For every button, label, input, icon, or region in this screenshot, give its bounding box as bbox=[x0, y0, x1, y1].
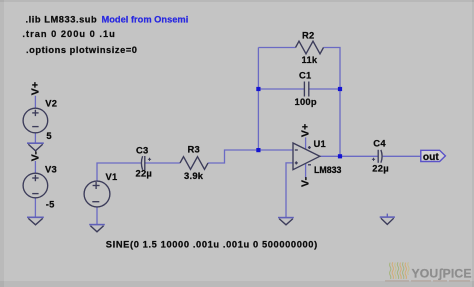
wire V1 top to C3 bbox=[97, 163, 141, 181]
voltage source V3 bbox=[23, 173, 48, 198]
svg-text:V+: V+ bbox=[30, 82, 42, 96]
wire V3 top stub bbox=[34, 161, 36, 173]
wire top to R2 bbox=[258, 47, 295, 49]
resistor R2 bbox=[296, 41, 324, 54]
node junction at output bbox=[338, 154, 342, 158]
wire R3 jog up to opamp inverting input bbox=[208, 150, 293, 163]
wire V2 to ground bbox=[34, 133, 36, 144]
op-amp U1 bbox=[293, 143, 320, 170]
svg-text:V+: V+ bbox=[299, 124, 311, 138]
svg-text:V1: V1 bbox=[106, 171, 118, 182]
node junction at inverting input bbox=[256, 148, 260, 152]
watermark logo strands bbox=[390, 262, 409, 279]
floating ground right bbox=[380, 214, 395, 225]
capacitor C3 (polarized) bbox=[141, 156, 151, 170]
resistor R3 bbox=[180, 157, 208, 170]
svg-text:SINE(0 1.5 10000 .001u .001u 0: SINE(0 1.5 10000 .001u .001u 0 500000000… bbox=[106, 239, 318, 249]
svg-text:-5: -5 bbox=[46, 198, 55, 209]
wire V3 to ground bbox=[34, 198, 36, 218]
watermark tagline bbox=[385, 280, 470, 281]
voltage source V1 bbox=[84, 181, 110, 207]
node junction C1 left bbox=[256, 87, 260, 91]
wire C1 left bbox=[258, 88, 304, 90]
ground below V2 bbox=[27, 143, 44, 151]
svg-text:R3: R3 bbox=[188, 144, 200, 155]
svg-text:3.9k: 3.9k bbox=[184, 170, 204, 181]
svg-text:100p: 100p bbox=[295, 96, 317, 107]
svg-text:C4: C4 bbox=[373, 137, 386, 148]
svg-text:V-: V- bbox=[30, 151, 42, 162]
svg-text:R2: R2 bbox=[302, 30, 314, 41]
svg-text:.options plotwinsize=0: .options plotwinsize=0 bbox=[26, 45, 138, 55]
wire opamp noninverting input to ground bbox=[286, 163, 293, 218]
svg-text:out: out bbox=[423, 152, 439, 163]
voltage source V2 bbox=[23, 108, 48, 133]
svg-text:C1: C1 bbox=[299, 69, 311, 80]
svg-text:C3: C3 bbox=[136, 144, 148, 155]
svg-text:LM833: LM833 bbox=[314, 165, 341, 175]
out flag bbox=[421, 150, 446, 161]
wire opamp V+ pin bbox=[305, 137, 307, 149]
svg-text:5: 5 bbox=[46, 130, 51, 141]
svg-text:V-: V- bbox=[300, 176, 312, 187]
capacitor C4 (polarized) bbox=[372, 150, 382, 163]
svg-text:11k: 11k bbox=[302, 54, 318, 65]
svg-text:.tran 0 200u 0 .1u: .tran 0 200u 0 .1u bbox=[22, 29, 115, 39]
wire opamp output to C4 bbox=[320, 155, 378, 157]
wire V1 to ground bbox=[96, 207, 98, 225]
svg-text:22µ: 22µ bbox=[372, 162, 389, 173]
wire R2 to right vertical bbox=[324, 48, 341, 157]
ground below V3 bbox=[27, 217, 44, 225]
ground below op-amp bbox=[278, 218, 294, 225]
svg-text:YOUʃPICE: YOUʃPICE bbox=[412, 267, 472, 281]
wire V2 top stub bbox=[34, 96, 36, 109]
svg-text:U1: U1 bbox=[314, 138, 326, 149]
svg-text:V2: V2 bbox=[45, 97, 57, 108]
svg-text:Model from Onsemi: Model from Onsemi bbox=[102, 15, 189, 25]
capacitor C1 bbox=[304, 82, 308, 97]
wire C3 to R3 bbox=[145, 162, 180, 164]
svg-text:V3: V3 bbox=[45, 163, 57, 174]
wire C1 right bbox=[309, 88, 340, 90]
svg-text:.lib LM833.sub: .lib LM833.sub bbox=[26, 15, 98, 25]
wire C4 to out flag bbox=[383, 155, 421, 157]
svg-text:22µ: 22µ bbox=[136, 167, 153, 178]
wire feedback left vertical bbox=[257, 48, 259, 151]
node junction C1 right bbox=[338, 87, 342, 91]
ground below V1 bbox=[89, 225, 105, 232]
wire opamp V- pin bbox=[305, 163, 307, 178]
